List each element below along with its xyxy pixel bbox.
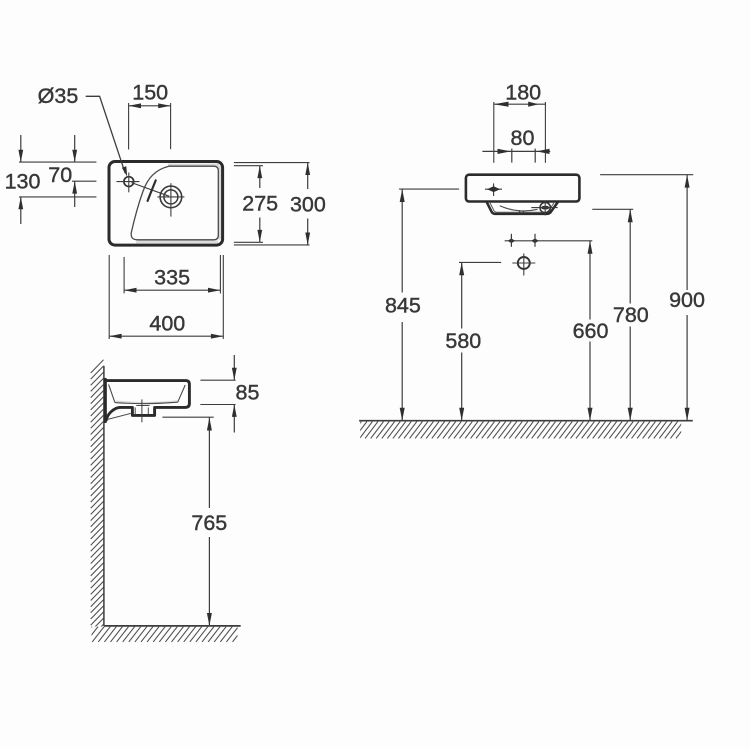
- ext 845 (faucet level): [399, 188, 459, 190]
- left ext line top (sink top edge): [19, 161, 96, 163]
- slash tick 2: [148, 194, 151, 201]
- basin shading right band: [218, 166, 221, 240]
- basin back slant: [109, 384, 115, 402]
- slash tick 1: [151, 180, 156, 192]
- side profile outline: [105, 381, 189, 421]
- drain fitting crosshair: [544, 201, 546, 216]
- basin floor shading: [115, 400, 178, 404]
- dim 300 line: [307, 163, 309, 245]
- left ext line middle (faucet center): [72, 180, 96, 182]
- drain fitting circle: [540, 202, 550, 212]
- basin outer rect: [109, 162, 223, 246]
- dim 780 line: [629, 209, 631, 420]
- bowl inner line: [490, 202, 555, 212]
- dim 80 line: [482, 150, 550, 152]
- bottom ext 335 left: [123, 257, 125, 293]
- faucet hole circle: [124, 177, 134, 187]
- ext 580 (wall drain level): [459, 261, 501, 263]
- dim 660 line: [589, 241, 591, 421]
- leader arrowhead: [122, 166, 127, 176]
- floor line right: [359, 420, 693, 422]
- ext 780 (bowl bottom level): [592, 208, 633, 210]
- dim 845 line: [401, 189, 403, 421]
- svg-text:845: 845: [385, 294, 421, 318]
- floor line left: [104, 625, 241, 627]
- bottom ext 400 left: [108, 255, 110, 339]
- wall line: [103, 366, 105, 626]
- dim 335 line: [124, 289, 220, 291]
- bowl outline: [487, 202, 558, 214]
- svg-text:130: 130: [5, 170, 41, 194]
- drain outer circle: [160, 186, 182, 208]
- dim 275 line: [259, 166, 261, 243]
- dim 765 line: [208, 418, 210, 626]
- dim 85 ext top: [200, 379, 235, 381]
- dim 85 ext bottom: [200, 404, 235, 406]
- basin inner rim and bowl curve: [131, 166, 218, 240]
- wall drain crosshair: [523, 254, 525, 276]
- svg-text:335: 335: [154, 266, 190, 290]
- dim 80 arrows (inward): [498, 149, 511, 154]
- svg-text:780: 780: [613, 303, 649, 327]
- leader line D35: [86, 96, 126, 173]
- lower hole spacing line (660 ext): [505, 240, 593, 242]
- dim 70 bottom arrow: [74, 181, 76, 207]
- dim 130 top arrow: [20, 135, 22, 162]
- faucet hole symbol diamond: [487, 186, 500, 192]
- dim 765 ref line: [162, 416, 213, 418]
- dim 400 line: [109, 335, 223, 337]
- right ext 300 bottom: [234, 244, 310, 246]
- svg-text:Ø35: Ø35: [38, 84, 79, 108]
- svg-text:765: 765: [191, 511, 227, 535]
- dim 150 arrows: [129, 103, 141, 108]
- svg-text:275: 275: [242, 192, 278, 216]
- basin shading top band: [168, 164, 219, 167]
- svg-text:80: 80: [511, 126, 535, 150]
- dim 900 line: [686, 175, 688, 421]
- right ext 275 bottom: [234, 241, 263, 243]
- side profile back edge: [104, 379, 107, 421]
- dim 85 bottom arrow: [233, 405, 235, 433]
- lower hole diamonds and ticks: [508, 238, 515, 243]
- drain fitting plug: [541, 206, 549, 210]
- foot diagonal line: [108, 413, 131, 419]
- bottom ext 400 right: [222, 255, 224, 339]
- dim 150 ext lines: [128, 103, 130, 150]
- dim 580 line: [461, 262, 463, 420]
- dim 275 text: [240, 188, 280, 218]
- bowl waterline curve: [500, 206, 538, 211]
- svg-text:85: 85: [236, 381, 260, 405]
- dim 180 line: [494, 103, 546, 105]
- svg-text:180: 180: [505, 81, 541, 105]
- svg-text:300: 300: [290, 193, 326, 217]
- dim 80 ticks: [511, 149, 513, 163]
- dim 85 top arrow: [233, 355, 235, 380]
- deck rect: [466, 175, 580, 202]
- drain centerline: [141, 399, 143, 422]
- right ext 275 top: [234, 165, 263, 167]
- bottom ext 335 right: [219, 255, 221, 294]
- right ext 300 top: [234, 162, 310, 164]
- svg-text:580: 580: [445, 329, 481, 353]
- svg-text:400: 400: [149, 312, 185, 336]
- faucet hole symbol crosshair: [485, 188, 502, 190]
- ext 900 (rim level): [600, 174, 693, 176]
- basin floor line: [115, 402, 178, 403]
- basin shading bottom band: [136, 240, 218, 243]
- basin front slant: [178, 385, 186, 402]
- svg-text:150: 150: [132, 81, 168, 105]
- bowl tick marks: [518, 210, 521, 214]
- drain inner circle: [164, 190, 178, 204]
- dim 130 bottom arrow: [20, 197, 22, 224]
- pocket inner lines: [134, 407, 136, 414]
- drain crosshair: [170, 183, 172, 216]
- svg-text:660: 660: [573, 319, 609, 343]
- wall drain circle: [518, 257, 530, 269]
- dim 300 text: [288, 189, 328, 219]
- dim 70 top arrow: [74, 135, 76, 162]
- faucet hole crosshair: [117, 181, 140, 183]
- dim 180 ext lines: [493, 102, 495, 163]
- svg-text:70: 70: [48, 163, 72, 187]
- centerline faucet to drain: [132, 183, 170, 197]
- svg-text:900: 900: [669, 288, 705, 312]
- dim 150 line: [129, 105, 171, 107]
- left ext line bottom (drain center): [19, 196, 96, 198]
